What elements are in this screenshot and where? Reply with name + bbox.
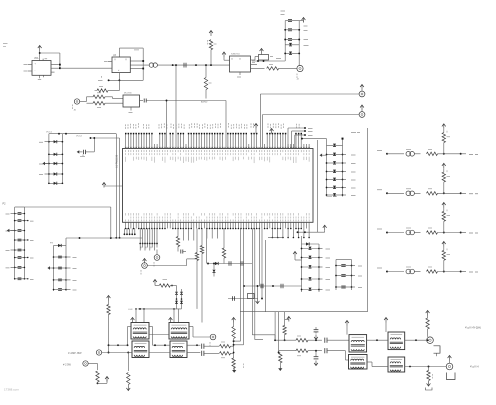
resistor R below U1 b (200, 246, 203, 254)
diode LT4 (289, 43, 292, 46)
resistor RBv2 (232, 358, 235, 368)
node row2 mid (443, 192, 445, 194)
svg-text:J2: J2 (297, 79, 300, 81)
rung P2-4 (15, 239, 25, 241)
label R row3 (428, 227, 432, 229)
connector loop1 (359, 91, 365, 97)
wire VCC2 (91, 137, 120, 139)
label R5 (269, 64, 273, 66)
rung P2-6 (15, 257, 25, 259)
rung LT2 (285, 29, 299, 31)
label row3 left (377, 228, 382, 230)
power flag T3 (345, 321, 349, 324)
label R feedback (99, 86, 103, 88)
wire U3 bottom (118, 73, 120, 81)
wire BR-Ra top (284, 312, 286, 326)
label row4 fb (406, 266, 411, 268)
svg-text:U1 TA31136: U1 TA31136 (116, 154, 119, 168)
wire R4 bottom (205, 90, 207, 99)
wire TP3 (193, 336, 210, 338)
svg-text:J6: J6 (74, 110, 77, 112)
xtal jog wire 3 (295, 134, 305, 136)
node h286 (243, 285, 245, 287)
resistor RBh1 (220, 345, 231, 348)
wire row3 vert (443, 221, 445, 232)
gnd BRg2 (314, 363, 318, 366)
ferrite bead FB1 (149, 63, 153, 67)
gnd BR below (278, 368, 282, 371)
wire BR d2 (327, 350, 345, 352)
transformer T4a (388, 332, 405, 350)
svg-text:P3: P3 (50, 243, 53, 245)
resistor R below U1 a (195, 253, 198, 261)
cap C series main (183, 63, 185, 68)
rail LT left (284, 21, 286, 61)
pin names U1 top (125, 157, 127, 162)
wire long pair b2 (254, 229, 256, 340)
svg-text:P2: P2 (3, 203, 7, 206)
wire P2 drop (110, 207, 112, 238)
label U2 inside (231, 58, 233, 60)
power flag loop1 (360, 85, 364, 88)
wire U3 loop right (142, 48, 144, 80)
rung P2-1 (15, 213, 25, 215)
node LT2a (284, 29, 286, 31)
transformer T3b (349, 355, 368, 370)
resistor R5 (267, 67, 279, 70)
rung LA5 (49, 182, 63, 184)
wire mid h286 (244, 285, 302, 287)
wire R5 to J2 (279, 67, 297, 69)
node U3 bottom (108, 79, 110, 81)
wire riser to IC (175, 65, 177, 133)
gnd BRg1 (314, 337, 318, 340)
resistor RBv (232, 327, 235, 339)
wire J8 (88, 363, 97, 365)
resistor Rv row2 (442, 172, 445, 182)
wire Rb (201, 229, 203, 246)
trim circle TP1 (154, 255, 160, 261)
wire bottom pair b (128, 352, 132, 354)
power flag row1 (442, 124, 446, 127)
svg-text:#4-8: #4-8 (128, 309, 133, 311)
ferrite FB row1 (406, 152, 411, 157)
power flag R3 (209, 31, 213, 34)
power flag T1 (131, 318, 135, 321)
node main b (195, 64, 197, 66)
wire Ra (196, 229, 198, 253)
label U3 bottom (98, 79, 103, 81)
resistor BR-Rv1 (426, 318, 429, 329)
gnd RB3 (126, 388, 130, 391)
gnd RBv2 (232, 370, 236, 373)
power flag near pin 256 (254, 124, 258, 127)
wire R3 top (210, 35, 212, 38)
stub P2-3 (11, 230, 15, 232)
bus y238 (66, 237, 142, 239)
pin U5 in1 (28, 64, 33, 66)
wire loop2 flag (361, 110, 363, 112)
wire mid h298 (228, 298, 258, 300)
cap BR-C1 (324, 338, 326, 343)
cap BRg2 (314, 356, 319, 358)
node R3 (210, 64, 212, 66)
resistor BR-Rv2 (427, 371, 430, 381)
stub row4 (461, 271, 466, 273)
connector JOUT2 (446, 363, 453, 370)
wire loop2 (263, 114, 360, 116)
svg-text:U5A: U5A (34, 57, 39, 60)
rung L6-1 (336, 265, 352, 267)
transformer T2b (170, 341, 187, 358)
power flag RBv (232, 318, 236, 321)
wire row4 c (438, 271, 461, 273)
node row1 mid (443, 153, 445, 155)
node bus y238 (79, 237, 81, 239)
label J mic (72, 105, 74, 107)
rung P2-8 (15, 278, 25, 280)
connector loop2 (359, 112, 365, 118)
wire T1 feed a (135, 309, 137, 323)
rung P3-3 (54, 279, 67, 281)
pin U5 out2 (51, 67, 59, 69)
rung P2-3 (15, 230, 25, 232)
power flag LR bottom (323, 225, 327, 228)
resistor Rh285 (159, 284, 170, 287)
resistor R mic1 (93, 95, 105, 98)
rung LR3 (327, 171, 343, 173)
rung L6-2 (336, 275, 352, 277)
wire row2 a (387, 192, 404, 194)
wire T4 right (405, 339, 427, 341)
label L6-3 (352, 286, 356, 288)
label right of IC bottom (327, 196, 332, 198)
rail L6 right (351, 260, 353, 291)
wire U1 left col a (115, 134, 117, 238)
extra drops U1 bottom right half (182, 229, 184, 241)
wire row2 b (414, 192, 420, 194)
stub P2r-2 (24, 220, 27, 222)
cap CB2 (201, 351, 203, 356)
ferrite FB row4 (406, 269, 411, 274)
resistor R row1 (427, 152, 438, 155)
diode mid v (213, 270, 216, 273)
resistor R below U1 d (222, 248, 225, 258)
resistor RB1 (107, 305, 110, 315)
diode stack a1 (175, 292, 178, 295)
label Rh285 (163, 279, 168, 281)
resistor RBh2 (220, 352, 231, 355)
wire RB2 (97, 382, 99, 383)
amp U4 (123, 95, 140, 107)
label U3 pins (114, 59, 116, 61)
transformer T3a (349, 335, 367, 352)
pin numbers U1 bottom (125, 220, 127, 222)
wire row3 b (414, 232, 420, 234)
wire long pair a1 (240, 229, 242, 342)
power flag RB1 (107, 296, 111, 299)
ic U1 body (123, 149, 314, 223)
bus under IC right (298, 231, 325, 233)
node row3 left (386, 232, 388, 234)
connector J7 (96, 350, 101, 355)
label LR top (351, 132, 356, 134)
stub P3-1 (66, 256, 71, 258)
wire row2 vert (443, 182, 445, 193)
stub P2r-8 (24, 278, 27, 280)
wire loop1 (260, 93, 359, 95)
wire CB to R a (204, 345, 219, 347)
power flag U2b (260, 49, 264, 52)
wire R4 top (205, 65, 207, 77)
label row3 fb (406, 227, 411, 229)
resistor R row4 (427, 270, 438, 273)
power flag row2 (442, 163, 446, 166)
power flag LT (302, 18, 306, 21)
node row3 right (460, 232, 462, 234)
wire loop2 drop (262, 115, 264, 134)
wire T3-T4 a (367, 339, 388, 341)
wire bottom pair a (109, 344, 128, 346)
label L5-5 (319, 289, 323, 291)
node LT tail b (263, 60, 265, 62)
pin U2 out1 (251, 59, 256, 61)
ferrite FB row2 (406, 191, 411, 196)
resistor R row3 (427, 231, 438, 234)
node row1 right (460, 153, 462, 155)
enclosure left (265, 240, 267, 312)
diode P3 top (58, 244, 61, 247)
wire R feedback (108, 90, 119, 92)
wire row4 vert (443, 260, 445, 271)
cap mid a (228, 261, 230, 265)
connector J2 (297, 65, 303, 71)
resistor BR-R1 (296, 339, 308, 342)
label TP3 (209, 342, 211, 344)
arrow LA (42, 162, 45, 165)
diode LT5 (289, 52, 292, 55)
wire LT top (285, 20, 299, 22)
wire L6 top (336, 259, 352, 261)
node diode stack (176, 298, 178, 300)
node T4b right (409, 366, 411, 368)
wire P3 top (54, 245, 67, 247)
power flag T4 (384, 318, 388, 321)
wire mid x207 (206, 229, 208, 264)
wire Rh285 right (170, 285, 176, 287)
wire T4b right (405, 366, 447, 368)
node LA wire (58, 133, 60, 135)
wire U3 loop left (118, 48, 120, 57)
wire T3-T4 b (367, 361, 372, 363)
node row4 right (460, 271, 462, 273)
stub P2-5 (11, 249, 15, 251)
pin row U1 bottom stubs (125, 222, 127, 228)
node row4 mid (443, 271, 445, 273)
rung P3-2 (54, 267, 67, 269)
node U5 out1 (59, 64, 61, 66)
rung L6-3 (336, 286, 352, 288)
rung LR5 (327, 187, 343, 189)
svg-text:4' µV HY-2(H): 4' µV HY-2(H) (465, 326, 481, 330)
ic U2 (230, 56, 251, 72)
rail LR right (342, 139, 344, 197)
label BR-R2 (297, 355, 301, 357)
rail LR left (326, 139, 328, 197)
label L6-2 (352, 275, 356, 277)
wire BR pair b2 (274, 312, 276, 341)
node U3 out a (142, 60, 144, 62)
rung LT4 (285, 44, 299, 46)
resistor R3 (209, 40, 212, 50)
diode stack a2 (175, 301, 178, 304)
cap comp CD (77, 150, 80, 153)
wire T1 feed b (143, 309, 145, 323)
wire T2 feed a (173, 309, 175, 323)
rung L5-3 (302, 266, 320, 268)
power flag loop2 (360, 105, 364, 108)
wire row1 a (387, 153, 404, 155)
resistor R mic2 (93, 102, 105, 105)
pin row U1 top stubs (125, 147, 127, 148)
rung LA2 (49, 153, 63, 155)
wire U3 loop top (119, 47, 143, 49)
rung LA1 (49, 141, 63, 143)
wire T1 left loop (128, 326, 132, 328)
stub row2 (461, 192, 466, 194)
resistor R feedback (97, 89, 108, 92)
cap mid b (240, 261, 242, 265)
label row4 right (469, 271, 473, 273)
wire BR pair a (275, 339, 296, 341)
cap LT1 (288, 19, 292, 21)
pin U5 out3 (51, 71, 55, 73)
label BR-Rv2 (432, 374, 434, 376)
trim circle TP2 (142, 263, 148, 269)
op-amp U5 (32, 61, 51, 76)
rail L6 left (335, 260, 337, 291)
net labels above U1 top pins (124, 124, 126, 126)
label row2 fb (406, 188, 411, 190)
power flag T2 (169, 318, 173, 321)
comp small box E (259, 55, 269, 61)
wire TP jog (186, 259, 188, 266)
label LR5 (343, 187, 347, 189)
label TP2 (140, 270, 142, 272)
pin U4 bottom (130, 107, 132, 111)
wire P2 to right (24, 206, 110, 208)
node U3 out c (142, 68, 144, 70)
rung P2-2 (15, 220, 25, 222)
cap below Rc (180, 250, 182, 254)
wire U5 feedback top (40, 52, 60, 54)
pin U2 bottom (239, 72, 241, 75)
node R4 (205, 64, 207, 66)
wire T2 right (189, 326, 193, 328)
rung LR4 (327, 179, 343, 181)
label LR3 (343, 171, 347, 173)
xtal jog wire 2 (292, 130, 305, 132)
jack bracket JOUT2 (447, 373, 456, 380)
label LT4 (304, 45, 309, 47)
label L5-1 (319, 248, 323, 250)
power flag Rh285 (153, 280, 157, 283)
label LR1 (343, 154, 347, 156)
svg-text:-: - (35, 70, 36, 73)
wire TP2 right (147, 265, 186, 267)
label L5-4 (319, 278, 323, 280)
wire loop1 flag (361, 90, 363, 92)
rail L5 right (318, 244, 320, 292)
wire L5 top (302, 243, 320, 245)
resistor Rv row4 (442, 250, 445, 260)
wire row3 a (387, 232, 404, 234)
node Rh285 (171, 285, 173, 287)
rung P3-1 (54, 256, 67, 258)
wire LT right tail (298, 56, 300, 65)
node row2 right (460, 192, 462, 194)
label row1 left (377, 149, 382, 151)
pin U5 top (42, 59, 44, 61)
node U5 out2 (59, 67, 61, 69)
wire row4 b (414, 271, 420, 273)
stub LA3 (45, 163, 49, 165)
svg-text:17368.com: 17368.com (4, 388, 19, 392)
label Rv row1 (447, 136, 451, 138)
wire Rd (223, 229, 225, 249)
resistor BR-Ra (283, 326, 286, 335)
wire U5 to U3 (60, 67, 112, 69)
wire BR-Ra bottom (284, 335, 286, 341)
wire T1 right (149, 326, 153, 328)
gnd flag mid (256, 301, 260, 304)
svg-text:VCC1: VCC1 (46, 131, 53, 133)
wire U2 flag (223, 57, 225, 60)
stub row1 (461, 153, 466, 155)
stub row3 (461, 232, 466, 234)
node RB2 (97, 382, 99, 384)
wire BR c1 (308, 339, 322, 341)
label LR4 (343, 179, 347, 181)
transformer T4b (388, 357, 405, 372)
wire T2 feed b (178, 309, 180, 323)
wire row1 vert (443, 143, 445, 154)
wire RBh2 right (231, 352, 234, 354)
label R row2 (428, 188, 432, 190)
resistor R below U1 c (176, 237, 179, 247)
transformer T2a (169, 323, 189, 340)
left stub flag (104, 185, 123, 187)
wire RB3 (127, 353, 129, 372)
resistor BR-R2 (296, 349, 308, 352)
svg-text:4' AMP J5W: 4' AMP J5W (68, 352, 82, 355)
wire long pair c2 (261, 229, 263, 299)
label row1 right (469, 153, 473, 155)
cap LT3 (288, 38, 292, 40)
resistor RB3 (127, 373, 130, 385)
wire LR top (302, 138, 327, 140)
gnd bracket BR-Rv2 (427, 383, 431, 386)
wire mic b (87, 102, 94, 104)
power flag row3 (442, 203, 446, 206)
wire U4 out (146, 100, 166, 102)
label LT tail (276, 58, 281, 60)
rung LR6 (327, 194, 343, 196)
cap series h286 a (260, 284, 262, 289)
node RB chain (233, 340, 235, 342)
wire U4 riser (166, 101, 168, 134)
pin U5 out1 (51, 64, 59, 66)
